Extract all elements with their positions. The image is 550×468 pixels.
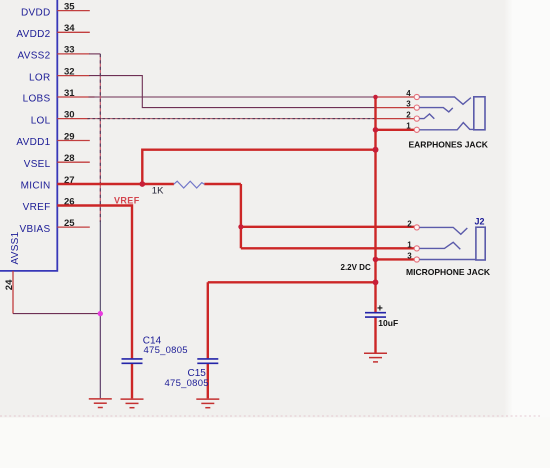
svg-text:LOR: LOR <box>29 72 50 83</box>
svg-text:+: + <box>377 303 383 314</box>
svg-text:DVDD: DVDD <box>21 7 51 18</box>
svg-text:475_0805: 475_0805 <box>165 378 209 389</box>
svg-text:VREF: VREF <box>23 202 51 213</box>
svg-text:AVSS1: AVSS1 <box>10 231 21 264</box>
svg-text:3: 3 <box>407 251 412 260</box>
svg-text:1: 1 <box>407 240 412 249</box>
svg-text:VSEL: VSEL <box>24 159 51 170</box>
svg-text:475_0805: 475_0805 <box>144 345 188 356</box>
svg-text:2: 2 <box>406 111 411 120</box>
svg-text:10uF: 10uF <box>378 318 398 328</box>
svg-text:4: 4 <box>406 89 411 98</box>
svg-text:AVSS2: AVSS2 <box>18 51 51 62</box>
svg-text:J2: J2 <box>475 217 485 227</box>
svg-text:AVDD1: AVDD1 <box>16 137 50 148</box>
svg-text:EARPHONES JACK: EARPHONES JACK <box>409 140 489 150</box>
svg-text:VBIAS: VBIAS <box>20 224 51 235</box>
svg-text:VREF: VREF <box>114 196 140 206</box>
svg-text:MICROPHONE JACK: MICROPHONE JACK <box>406 267 491 277</box>
svg-text:1K: 1K <box>152 186 164 197</box>
svg-text:2.2V DC: 2.2V DC <box>341 263 371 272</box>
svg-text:LOL: LOL <box>31 115 51 126</box>
svg-text:2: 2 <box>407 219 412 228</box>
svg-text:LOBS: LOBS <box>23 94 51 105</box>
svg-text:AVDD2: AVDD2 <box>16 29 50 40</box>
svg-text:MICIN: MICIN <box>21 181 51 192</box>
svg-text:3: 3 <box>406 100 411 109</box>
svg-text:1: 1 <box>406 122 411 131</box>
